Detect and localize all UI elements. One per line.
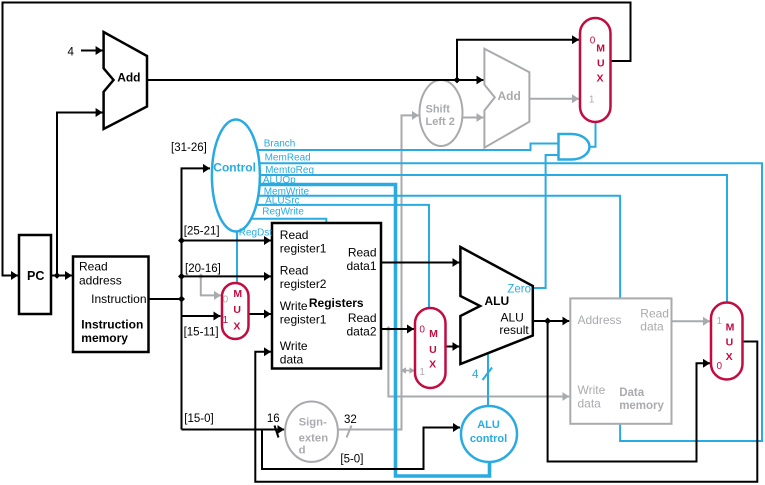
- svg-text:Read: Read: [348, 311, 377, 325]
- svg-text:memory: memory: [81, 331, 128, 345]
- svg-text:Read: Read: [348, 245, 377, 259]
- svg-text:X: X: [726, 351, 733, 363]
- svg-text:data: data: [280, 353, 304, 367]
- svg-text:Write: Write: [280, 339, 308, 353]
- svg-text:Instruction: Instruction: [81, 317, 143, 331]
- svg-text:Sign-: Sign-: [299, 416, 327, 428]
- svg-text:0: 0: [590, 36, 596, 47]
- svg-text:data: data: [578, 396, 602, 410]
- svg-text:X: X: [233, 321, 240, 333]
- svg-text:4: 4: [68, 47, 75, 59]
- svg-text:ALUSrc: ALUSrc: [265, 196, 299, 207]
- svg-text:register1: register1: [280, 313, 327, 327]
- svg-text:Data: Data: [619, 387, 645, 399]
- svg-text:[20-16]: [20-16]: [185, 263, 221, 275]
- svg-text:RegWrite: RegWrite: [262, 207, 304, 218]
- svg-text:data1: data1: [346, 259, 376, 273]
- svg-text:Write: Write: [280, 299, 308, 313]
- svg-text:MemRead: MemRead: [265, 153, 311, 164]
- svg-text:4: 4: [472, 369, 479, 381]
- svg-text:address: address: [79, 273, 122, 287]
- svg-text:M: M: [429, 328, 438, 340]
- svg-text:Add: Add: [117, 71, 140, 85]
- svg-text:U: U: [233, 304, 241, 316]
- svg-text:X: X: [597, 73, 604, 85]
- svg-text:0: 0: [419, 325, 425, 336]
- svg-text:M: M: [233, 288, 242, 300]
- svg-text:register2: register2: [280, 277, 327, 291]
- svg-text:0: 0: [717, 361, 723, 372]
- svg-text:exten: exten: [299, 432, 329, 444]
- svg-text:0: 0: [223, 294, 229, 305]
- svg-text:register1: register1: [280, 242, 327, 256]
- svg-text:M: M: [726, 322, 735, 334]
- svg-text:Zero: Zero: [507, 283, 531, 295]
- svg-text:ALU: ALU: [477, 419, 500, 431]
- svg-text:RegDst: RegDst: [239, 227, 273, 238]
- svg-text:1: 1: [717, 316, 723, 327]
- svg-text:Add: Add: [498, 89, 521, 103]
- svg-text:data: data: [640, 319, 664, 333]
- svg-text:Read: Read: [280, 264, 309, 278]
- svg-text:1: 1: [223, 315, 229, 326]
- svg-text:X: X: [429, 358, 436, 370]
- svg-text:memory: memory: [619, 400, 664, 412]
- svg-text:Left 2: Left 2: [426, 116, 455, 128]
- svg-text:ALUOp: ALUOp: [263, 175, 296, 186]
- svg-text:Instruction: Instruction: [91, 292, 146, 306]
- svg-text:Read: Read: [280, 228, 309, 242]
- svg-text:Registers: Registers: [309, 296, 364, 310]
- svg-text:M: M: [596, 42, 605, 54]
- svg-text:control: control: [470, 433, 507, 445]
- svg-text:[15-0]: [15-0]: [184, 413, 213, 425]
- svg-text:[25-21]: [25-21]: [184, 225, 220, 237]
- svg-text:d: d: [299, 445, 306, 457]
- svg-text:data2: data2: [346, 325, 376, 339]
- svg-text:1: 1: [589, 95, 595, 106]
- svg-text:ALU: ALU: [485, 294, 510, 308]
- svg-text:U: U: [429, 344, 437, 356]
- svg-text:[5-0]: [5-0]: [340, 454, 363, 466]
- svg-text:Shift: Shift: [426, 103, 451, 115]
- svg-text:Branch: Branch: [264, 138, 296, 149]
- svg-text:Write: Write: [578, 383, 606, 397]
- svg-text:PC: PC: [27, 269, 44, 283]
- svg-text:U: U: [726, 336, 734, 348]
- svg-text:1: 1: [419, 367, 425, 378]
- svg-text:Control: Control: [213, 161, 256, 175]
- svg-text:[31-26]: [31-26]: [171, 142, 207, 154]
- svg-text:U: U: [597, 58, 605, 70]
- svg-text:Address: Address: [578, 313, 622, 327]
- svg-text:[15-11]: [15-11]: [184, 327, 219, 339]
- svg-text:32: 32: [344, 414, 357, 426]
- svg-text:Read: Read: [79, 259, 108, 273]
- svg-text:result: result: [499, 323, 529, 337]
- svg-text:16: 16: [267, 413, 280, 425]
